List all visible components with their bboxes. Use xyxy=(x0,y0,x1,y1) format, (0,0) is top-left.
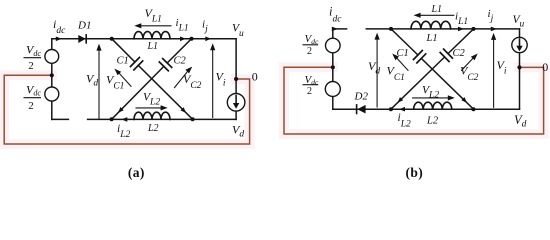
svg-text:2: 2 xyxy=(28,100,34,112)
wire: circuit (a) top rail xyxy=(52,38,236,40)
voltage source Vdc/2 lower (b) xyxy=(325,82,340,97)
wire: (b) diagonal from top-left node to C1 xyxy=(391,29,418,55)
wire: (b) diagonal from top-right node to C2 xyxy=(448,29,474,54)
node: (a) X network bottom-left junction xyxy=(110,117,114,121)
capacitor C2 (b) plates xyxy=(440,49,452,61)
arrowhead: current i_dc (a) xyxy=(56,37,62,42)
diode D2 (conducting, on bottom rail of (b)) xyxy=(357,105,366,114)
node: (a) right column junction to net 0 xyxy=(234,77,238,81)
current source (load) circle (b) xyxy=(512,37,527,52)
inductor L1 (b) xyxy=(411,21,451,29)
wire: circuit (b) left column above upper source xyxy=(332,29,334,38)
svg-text:C2: C2 xyxy=(174,55,187,66)
wire: (b) diagonal from C1 to bottom-right node xyxy=(421,58,473,109)
arrowhead: current i_L1 (a) xyxy=(180,37,186,42)
svg-text:0: 0 xyxy=(252,70,258,84)
wire: circuit (a) left column below lower source xyxy=(51,101,53,120)
wire: circuit (b) left column below lower source xyxy=(332,97,334,110)
node: (a) X network top-left junction xyxy=(110,37,114,41)
current source (load) circle (a) xyxy=(227,94,245,112)
arrow line: voltage V_C1 (a) xyxy=(120,74,132,87)
wire: circuit (a) left column above upper source xyxy=(51,39,53,50)
label: source value Vdc/2 upper (a) xyxy=(24,43,42,72)
arrowhead: V_d arrow tip (b) xyxy=(375,33,380,40)
arrow line: voltage V_L2 (a) xyxy=(136,107,162,109)
svg-text:C1: C1 xyxy=(397,48,409,59)
arrowhead: (b) diagonal A current into bottom-right node xyxy=(461,97,467,103)
node: (b) source midpoint junction to net 0 xyxy=(331,65,335,69)
svg-text:2: 2 xyxy=(307,46,312,57)
inductor L2 (a) xyxy=(134,112,170,119)
wire: (a) diagonal from top-left node to C1 xyxy=(112,39,135,62)
voltage source Vdc/2 lower (a) xyxy=(45,87,59,101)
arrow line: voltage V_C2 (a) xyxy=(175,72,188,88)
svg-text:C2: C2 xyxy=(453,48,466,59)
arrowhead: current source internal arrow (b) xyxy=(516,46,522,52)
arrow line: voltage V_d (a) xyxy=(98,50,100,119)
arrowhead: V_C2 arrow tip (b) xyxy=(471,54,478,61)
arrowhead: current source internal arrow (a) xyxy=(233,103,239,109)
wire: circuit (a) bottom rail left piece (D2 off = open gap) xyxy=(52,118,69,120)
net 0 return loop of circuit (b), red wire with pink halo xyxy=(284,67,544,134)
wire: (a) diagonal from C1 to bottom-right node xyxy=(138,65,192,119)
inductor L1 (a) xyxy=(134,32,170,39)
svg-text:D1: D1 xyxy=(77,20,91,32)
wire: (a) diagonal from top-right node to C2 xyxy=(167,39,191,63)
arrow line: voltage V_L1 (a) xyxy=(140,25,171,27)
svg-text:L2: L2 xyxy=(426,116,439,127)
arrow line: voltage V_L1 (b) xyxy=(420,14,454,16)
arrow line: voltage V_i (a) xyxy=(212,49,214,118)
capacitor C1 (b) plates xyxy=(414,51,426,63)
label: source value Vdc/2 lower (a) xyxy=(24,83,42,112)
svg-text:L1: L1 xyxy=(147,41,159,52)
arrowhead: current i_j (b) xyxy=(491,27,497,32)
svg-text:(a): (a) xyxy=(128,165,145,180)
arrowhead: current i_L2 (b) xyxy=(399,107,405,112)
arrowhead: current i_j (a) xyxy=(205,37,211,42)
svg-text:D2: D2 xyxy=(354,91,369,103)
svg-text:2: 2 xyxy=(307,86,312,97)
capacitor C1 (a) plates xyxy=(131,58,143,70)
voltage source Vdc/2 upper (b) xyxy=(326,38,341,53)
node: (b) X network top-left junction xyxy=(389,27,393,31)
wire: circuit (a) left column between sources xyxy=(51,63,53,87)
svg-text:C1: C1 xyxy=(117,55,129,66)
arrow line: voltage V_C2 (b) xyxy=(462,59,473,71)
wire: circuit (b) left column between sources xyxy=(332,53,334,82)
arrowhead: V_L2 arrow tip (b) xyxy=(448,95,455,100)
label: source value Vdc/2 upper (b) xyxy=(303,33,319,57)
arrowhead: V_L1 arrow tip (b) xyxy=(414,13,421,18)
arrow line: voltage V_i (b) xyxy=(493,39,495,108)
arrowhead: V_C2 arrow tip (a) xyxy=(185,67,192,74)
arrowhead: current i_L2 (a) xyxy=(121,117,127,122)
svg-text:L1: L1 xyxy=(426,33,438,44)
arrowhead: V_i arrow tip (b) xyxy=(491,33,496,40)
arrowhead: V_C1 arrow tip (b) xyxy=(392,54,399,61)
arrow line: voltage V_C1 (b) xyxy=(397,59,408,71)
node: (b) X network top-right junction xyxy=(472,27,476,31)
svg-text:L2: L2 xyxy=(147,123,159,134)
arrowhead: V_L1 arrow tip (a) xyxy=(134,23,141,28)
arrowhead: V_L2 arrow tip (a) xyxy=(161,105,168,110)
inductor L2 (b) xyxy=(414,102,452,109)
wire: circuit (b) top rail left piece (D1 off = open gap) xyxy=(333,28,347,30)
wire: (a) diagonal from C2 to bottom-left node xyxy=(112,66,164,119)
svg-text:0: 0 xyxy=(542,60,548,74)
arrowhead: V_i arrow tip (a) xyxy=(210,43,215,50)
node: (a) X network bottom-right junction xyxy=(191,117,195,121)
arrowhead: current i_dc (b) xyxy=(332,27,338,32)
node: (b) X network bottom-right junction xyxy=(472,107,476,111)
arrowhead: V_d arrow tip (a) xyxy=(96,44,101,51)
label: source value Vdc/2 lower (b) xyxy=(303,74,319,97)
arrow line: voltage V_L2 (b) xyxy=(413,97,449,99)
arrowhead: (a) diagonal B current into bottom-left node xyxy=(118,107,124,113)
arrowhead: V_C1 arrow tip (a) xyxy=(114,69,121,76)
wire: circuit (b) top rail right piece xyxy=(366,28,519,30)
voltage source Vdc/2 upper (a) xyxy=(45,50,59,64)
arrow line: voltage V_d (b) xyxy=(376,39,378,108)
svg-text:(b): (b) xyxy=(405,165,423,180)
wire: circuit (a) bottom rail right piece xyxy=(88,118,237,120)
wire: (b) diagonal from C2 to bottom-left node xyxy=(391,57,445,109)
net 0 return loop of circuit (a), red wire with pink halo xyxy=(4,75,249,144)
wire: circuit (b) right column xyxy=(519,29,521,109)
node: (b) X network bottom-left junction xyxy=(389,107,393,111)
diode D1 (conducting, on top rail of (a)) xyxy=(78,35,86,43)
node: (a) X network top-right junction xyxy=(190,37,194,41)
arrowhead: (a) diagonal A current into bottom-right node xyxy=(180,107,186,113)
node: (b) right column junction to net 0 xyxy=(517,65,521,69)
node: (a) source midpoint junction to net 0 xyxy=(50,73,54,77)
svg-text:L1: L1 xyxy=(431,4,443,15)
arrowhead: current i_L1 (b) xyxy=(458,27,464,32)
capacitor C2 (a) plates xyxy=(159,59,171,71)
wire: circuit (b) bottom rail xyxy=(333,108,520,110)
arrowhead: (b) diagonal B current into bottom-left node xyxy=(397,97,403,103)
wire: circuit (a) right column xyxy=(235,39,237,120)
svg-text:2: 2 xyxy=(28,60,34,72)
